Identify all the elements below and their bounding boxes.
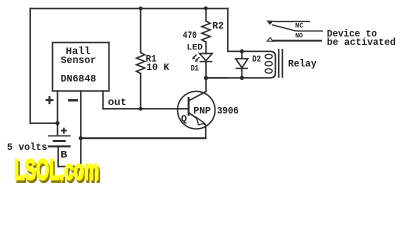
label battery plus: [61, 128, 67, 134]
wire out pin: [102, 91, 104, 109]
svg-text:10 K: 10 K: [146, 62, 170, 74]
label hall minus pin: [68, 99, 78, 101]
transistor emitter arrow: [197, 118, 205, 125]
node: rail-R2 junction: [204, 6, 208, 10]
battery B1: [48, 136, 71, 147]
svg-text:NO: NO: [295, 33, 303, 41]
svg-text:LED: LED: [187, 43, 203, 52]
svg-text:Q: Q: [181, 114, 187, 126]
wire R2 to LED: [205, 42, 207, 54]
svg-text:NC: NC: [295, 23, 303, 31]
node: emitter return junction: [79, 136, 83, 140]
wire NC line: [273, 21, 310, 23]
wire R1 top: [140, 9, 142, 53]
wire top rail corner down to relay: [227, 9, 229, 52]
wire out to base: [103, 108, 188, 110]
hall sensor box: [53, 43, 110, 92]
wire emitter vertical: [205, 125, 207, 138]
relay armature: [272, 25, 323, 31]
wire hall plus pin to battery: [57, 91, 59, 135]
wire left rail: [29, 9, 31, 124]
wire battery bottom: [57, 147, 59, 167]
svg-text:be activated: be activated: [327, 37, 396, 49]
node: LED-collector junction: [204, 76, 208, 80]
relay contact NO fixed: [267, 38, 273, 42]
transistor Q1 circle: [178, 91, 216, 129]
node: out-R1 junction: [139, 107, 143, 111]
svg-text:D2: D2: [252, 54, 261, 65]
wire top rail: [30, 8, 228, 10]
relay contact NC fixed: [267, 21, 272, 24]
relay coil loops: [265, 54, 272, 73]
svg-text:5 volts: 5 volts: [7, 142, 47, 154]
wire R1 bottom: [140, 74, 142, 109]
resistor R1: [136, 53, 144, 74]
wire battery to minus pin: [58, 166, 81, 168]
svg-text:Sensor: Sensor: [61, 55, 97, 67]
node: battery plus junction: [55, 121, 59, 125]
svg-text:out: out: [108, 97, 127, 109]
transistor collector diagonal: [189, 92, 206, 101]
relay coil body: [206, 51, 275, 78]
svg-text:470: 470: [183, 30, 197, 42]
node: rail-R1 junction: [139, 6, 143, 10]
node: D2 cathode junction: [240, 76, 244, 80]
wire emitter return: [81, 137, 206, 139]
wire collector: [205, 78, 207, 92]
LED D1: [192, 54, 212, 63]
wire left rail to battery plus: [30, 122, 57, 124]
wire NO line: [273, 40, 322, 42]
svg-text:D1: D1: [191, 64, 199, 73]
resistor R2: [202, 21, 210, 42]
svg-text:PNP: PNP: [193, 105, 210, 117]
diode D2: [236, 51, 248, 78]
svg-text:3906: 3906: [217, 106, 239, 118]
wire R2 top: [205, 9, 207, 22]
svg-text:DN6848: DN6848: [61, 74, 97, 86]
relay core: [279, 49, 283, 78]
node: D2 anode junction: [240, 49, 244, 53]
wire junction to relay bottom: [206, 77, 228, 79]
svg-text:Relay: Relay: [288, 58, 317, 70]
label hall plus pin: [46, 96, 54, 104]
svg-text:R2: R2: [212, 21, 224, 33]
transistor base bar: [188, 97, 190, 116]
wire hall minus pin down: [80, 91, 82, 167]
svg-text:LSOL.com: LSOL.com: [14, 154, 99, 187]
wire LED cathode to junction: [205, 62, 207, 78]
transistor emitter diagonal: [189, 113, 206, 126]
